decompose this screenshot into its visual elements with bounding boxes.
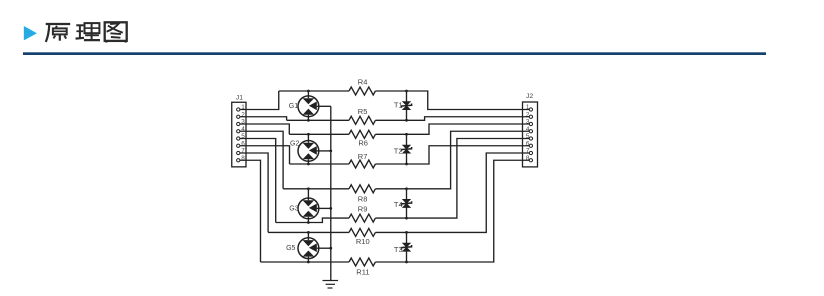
wire row C right segment to J2 pin3 bbox=[375, 124, 529, 134]
junction T2 top on row C bbox=[405, 133, 408, 136]
connector J1 pin 1 circle bbox=[237, 108, 240, 111]
blue horizontal divider line bbox=[23, 52, 766, 55]
transistor G1 label bbox=[289, 103, 298, 110]
connector J2 pin 7 circle bbox=[529, 151, 532, 154]
ground bbox=[323, 281, 339, 289]
transistor G3 label bbox=[289, 205, 298, 212]
junction G1 top on row A bbox=[307, 90, 310, 93]
svg-text:R4: R4 bbox=[358, 78, 368, 87]
junction G5 base on bus bbox=[329, 247, 332, 250]
wire row E right segment to J2 pin4 bbox=[375, 131, 529, 189]
connector J1 pin 6 circle bbox=[237, 144, 240, 147]
junction T3 top on row G bbox=[405, 231, 408, 234]
connector J2 pin number 3 bbox=[526, 119, 530, 126]
svg-text:J1: J1 bbox=[236, 94, 243, 101]
transistor G2 top lead wire bbox=[307, 134, 309, 143]
svg-text:R8: R8 bbox=[358, 194, 368, 203]
title character tu bbox=[105, 22, 127, 42]
wire row G left segment bbox=[268, 231, 349, 233]
tvs diode T2 bbox=[401, 145, 411, 154]
connector J1 pin number 1 bbox=[241, 104, 245, 111]
svg-text:T4: T4 bbox=[394, 200, 403, 209]
connector J2 pin 5 circle bbox=[529, 137, 532, 140]
connector J2 pin number 7 bbox=[526, 148, 530, 155]
connector J1 pin 4 circle bbox=[237, 130, 240, 133]
transistor G2 base lead wire bbox=[317, 150, 331, 152]
connector J1 pin 8 circle bbox=[237, 159, 240, 162]
wire row B left segment bbox=[287, 119, 349, 121]
resistor R10 label bbox=[356, 237, 370, 246]
connector J2 pin 1 circle bbox=[529, 108, 532, 111]
svg-text:R7: R7 bbox=[358, 152, 368, 161]
connector J1 body bbox=[232, 102, 246, 167]
wire J1 pin1 to node A riser bbox=[240, 91, 279, 110]
transistor G1 bbox=[298, 96, 319, 117]
junction G3 base on bus bbox=[329, 207, 332, 210]
wire row H left segment bbox=[261, 261, 350, 263]
tvs diode T2 lead wire bbox=[406, 134, 408, 164]
connector J2 label bbox=[526, 93, 533, 100]
connector J1 pin number 4 bbox=[241, 126, 245, 133]
wire J1 pin6 jog to node D bbox=[240, 146, 290, 164]
transistor G5 bottom lead wire bbox=[307, 257, 309, 262]
connector J1 pin number 5 bbox=[241, 133, 245, 140]
connector J2 pin number 4 bbox=[526, 126, 530, 133]
transistor G5 top lead wire bbox=[307, 232, 309, 240]
wire row E left segment bbox=[283, 188, 349, 190]
connector J2 pin number 6 bbox=[526, 140, 530, 147]
resistor R4 bbox=[349, 87, 375, 95]
title character yuan bbox=[46, 24, 70, 42]
wire J1 pin8 riser to node H bbox=[240, 160, 261, 262]
connector J2 pin number 2 bbox=[526, 111, 530, 118]
svg-text:R11: R11 bbox=[356, 267, 369, 276]
wire row H right segment to J2 pin8 bbox=[375, 160, 529, 262]
wire row A right segment to J2 pin1 bbox=[375, 91, 529, 110]
connector J1 pin 3 circle bbox=[237, 122, 240, 125]
resistor R4 label bbox=[358, 78, 368, 87]
resistor R5 bbox=[349, 116, 375, 124]
svg-text:R10: R10 bbox=[356, 237, 370, 246]
resistor R11 bbox=[349, 258, 375, 266]
wire J1 pin4 riser to node E bbox=[240, 131, 283, 189]
resistor R5 label bbox=[358, 107, 368, 116]
transistor G3 top lead wire bbox=[307, 189, 309, 201]
wire J1 pin5 riser to node F bbox=[240, 139, 276, 223]
svg-text:T3: T3 bbox=[394, 245, 403, 254]
svg-text:T1: T1 bbox=[394, 101, 403, 110]
junction T4 bottom on row F bbox=[405, 217, 408, 220]
tvs diode T4 label bbox=[394, 200, 403, 209]
svg-text:G1: G1 bbox=[289, 103, 298, 110]
junction G3 top on row E bbox=[307, 187, 310, 190]
wire row D right segment to J2 pin6 bbox=[375, 146, 529, 164]
resistor R6 label bbox=[358, 139, 368, 148]
transistor G2 bottom lead wire bbox=[307, 159, 309, 164]
title character li bbox=[76, 23, 100, 40]
connector J1 pin number 7 bbox=[241, 148, 245, 155]
connector J2 pin 2 circle bbox=[529, 115, 532, 118]
connector J2 pin number 8 bbox=[526, 155, 530, 162]
wire row G right segment to J2 pin7 bbox=[375, 153, 529, 232]
connector J1 pin 2 circle bbox=[237, 115, 240, 118]
transistor G1 top lead wire bbox=[307, 91, 309, 98]
transistor G3 bottom lead wire bbox=[307, 217, 309, 223]
resistor R8 bbox=[349, 185, 375, 193]
resistor R6 bbox=[349, 130, 375, 138]
connector J2 body bbox=[523, 102, 538, 167]
transistor G5 label bbox=[286, 245, 295, 252]
wire row A left segment bbox=[279, 90, 349, 92]
svg-text:R6: R6 bbox=[358, 139, 368, 148]
wire row D left segment bbox=[290, 163, 350, 165]
transistor G5 bbox=[298, 238, 319, 259]
wire row F right segment to J2 pin5 bbox=[375, 139, 529, 219]
junction G2 base on bus bbox=[329, 150, 332, 153]
resistor R7 bbox=[349, 160, 375, 168]
tvs diode T3 bbox=[401, 243, 411, 252]
connector J1 pin 7 circle bbox=[237, 151, 240, 154]
transistor G1 bottom lead wire bbox=[307, 115, 309, 121]
connector J2 pin 8 circle bbox=[529, 159, 532, 162]
connector J1 pin number 2 bbox=[241, 111, 245, 118]
svg-text:G2: G2 bbox=[290, 140, 299, 147]
junction T1 bottom on row B bbox=[405, 119, 408, 122]
junction G1 bottom on row B bbox=[307, 119, 310, 122]
wire J1 pin2 to node B jog bbox=[240, 117, 287, 121]
junction G2 bottom on row D bbox=[307, 163, 310, 166]
transistor G2 bbox=[298, 141, 319, 162]
resistor R11 label bbox=[356, 267, 369, 276]
junction G5 top on row G bbox=[307, 231, 310, 234]
wire row F left segment with jog bbox=[276, 218, 349, 222]
connector J2 pin 4 circle bbox=[529, 130, 532, 133]
transistor G1 base lead wire bbox=[317, 105, 331, 107]
svg-text:G3: G3 bbox=[289, 205, 298, 212]
junction T3 bottom on row H bbox=[405, 261, 408, 264]
junction G5 bottom on row H bbox=[307, 261, 310, 264]
junction G3 bottom on row F bbox=[307, 221, 310, 224]
junction G2 top on row C bbox=[307, 133, 310, 136]
wire row C left segment bbox=[289, 133, 349, 135]
resistor R9 bbox=[349, 214, 375, 222]
tvs diode T4 bbox=[401, 199, 411, 208]
connector J2 pin number 1 bbox=[526, 104, 530, 111]
connector J1 label bbox=[236, 94, 243, 101]
wire J1 pin7 riser to node G bbox=[240, 153, 268, 232]
junction T4 top on row E bbox=[405, 187, 408, 190]
svg-text:T2: T2 bbox=[394, 146, 403, 155]
svg-text:G5: G5 bbox=[286, 245, 295, 252]
connector J1 pin 5 circle bbox=[237, 137, 240, 140]
tvs diode T2 label bbox=[394, 146, 403, 155]
svg-text:R5: R5 bbox=[358, 107, 368, 116]
connector J2 pin 3 circle bbox=[529, 122, 532, 125]
blue header arrow icon bbox=[24, 26, 37, 40]
resistor R8 label bbox=[358, 194, 368, 203]
connector J1 pin number 3 bbox=[241, 119, 245, 126]
resistor R7 label bbox=[358, 152, 368, 161]
transistor G5 base lead wire bbox=[317, 247, 331, 249]
tvs diode T3 lead wire bbox=[406, 232, 408, 262]
tvs diode T1 lead wire bbox=[406, 91, 408, 120]
transistor G2 label bbox=[290, 140, 299, 147]
tvs diode T1 label bbox=[394, 101, 403, 110]
tvs diode T4 lead wire bbox=[406, 189, 408, 218]
wire emitter bus vertical bbox=[330, 106, 332, 280]
resistor R9 label bbox=[358, 204, 368, 213]
connector J2 pin number 5 bbox=[526, 133, 530, 140]
wire J1 pin3 to node C jog bbox=[240, 124, 289, 134]
connector J2 pin 6 circle bbox=[529, 144, 532, 147]
svg-text:J2: J2 bbox=[526, 93, 533, 100]
resistor R10 bbox=[349, 228, 375, 236]
junction T2 bottom on row D bbox=[405, 163, 408, 166]
wire row B right segment to J2 pin2 bbox=[375, 117, 529, 121]
tvs diode T3 label bbox=[394, 245, 403, 254]
transistor G3 base lead wire bbox=[317, 207, 331, 209]
connector J1 pin number 8 bbox=[241, 155, 245, 162]
connector J1 pin number 6 bbox=[241, 140, 245, 147]
transistor G3 bbox=[298, 198, 319, 219]
tvs diode T1 bbox=[401, 101, 411, 110]
junction T1 top on row A bbox=[405, 90, 408, 93]
svg-text:R9: R9 bbox=[358, 204, 368, 213]
